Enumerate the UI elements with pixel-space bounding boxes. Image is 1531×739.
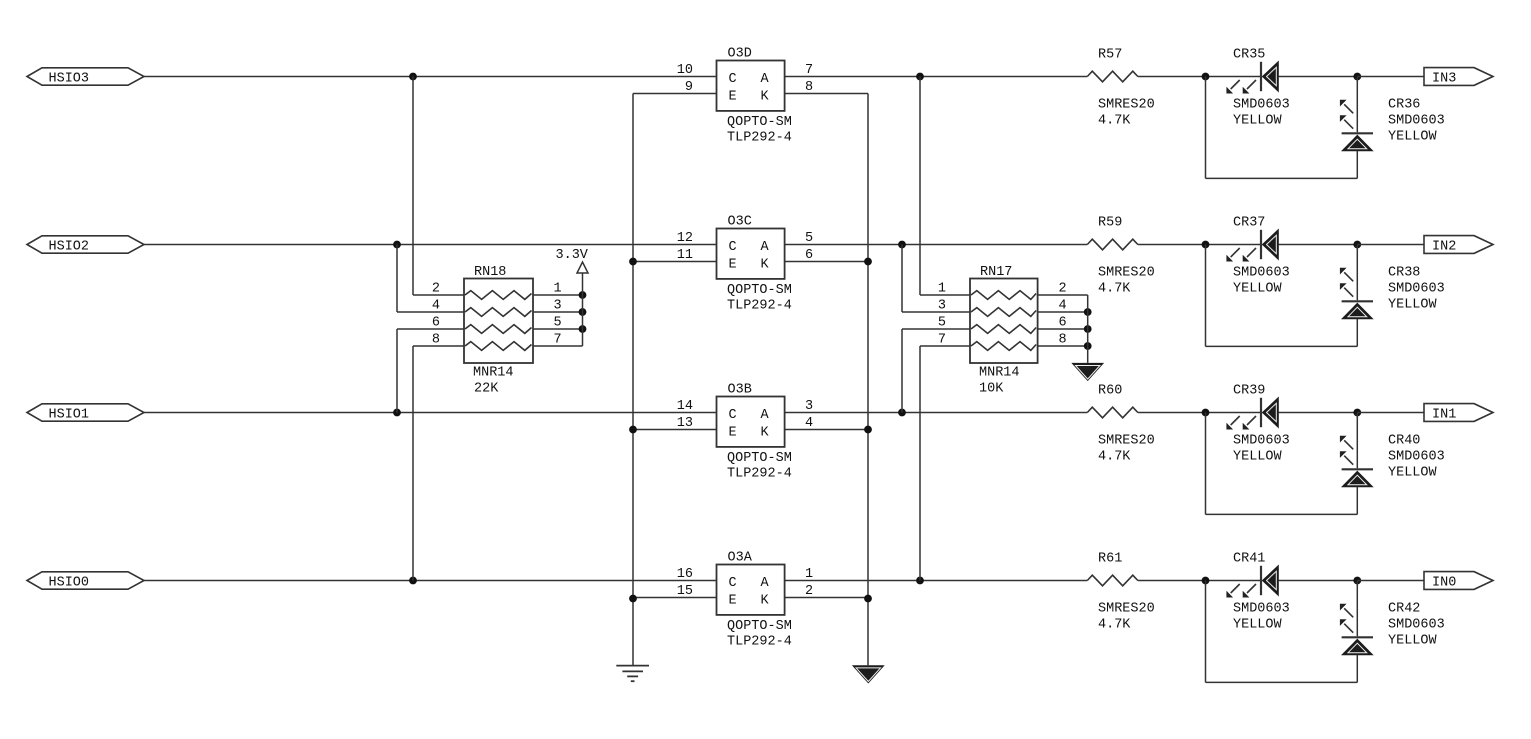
wire	[633, 261, 717, 263]
wire	[1205, 581, 1207, 683]
wire	[1356, 655, 1358, 683]
svg-text:QOPTO-SM: QOPTO-SM	[727, 283, 792, 298]
svg-text:4.7K: 4.7K	[1098, 618, 1131, 633]
wire	[919, 77, 921, 296]
svg-text:K: K	[761, 90, 770, 105]
wire	[144, 412, 717, 414]
svg-text:A: A	[761, 408, 770, 423]
junction	[1202, 577, 1210, 585]
wire	[633, 93, 717, 95]
wire	[1138, 412, 1260, 414]
ground AGND bottom	[852, 665, 885, 683]
svg-text:CR39: CR39	[1233, 384, 1265, 399]
junction on HSIO1 net	[393, 409, 401, 417]
wire	[397, 311, 464, 313]
svg-text:A: A	[761, 576, 770, 591]
svg-text:O3B: O3B	[728, 382, 752, 397]
svg-text:E: E	[729, 258, 737, 273]
wire	[144, 244, 717, 246]
node IN2 output flag	[1424, 236, 1493, 254]
resistor R61	[1087, 575, 1138, 586]
svg-text:SMD0603: SMD0603	[1233, 602, 1290, 617]
svg-text:R57: R57	[1098, 48, 1122, 63]
wire	[582, 273, 584, 346]
svg-text:12: 12	[677, 231, 693, 246]
node HSIO1 input flag	[27, 404, 144, 421]
junction	[1353, 409, 1361, 417]
svg-text:R61: R61	[1098, 552, 1122, 567]
svg-text:K: K	[761, 426, 770, 441]
wire	[412, 346, 414, 581]
wire	[1206, 345, 1358, 347]
wire	[1278, 580, 1357, 582]
svg-text:MNR14: MNR14	[473, 366, 514, 381]
junction at x=902	[898, 241, 906, 249]
wire	[1356, 319, 1358, 347]
svg-text:YELLOW: YELLOW	[1233, 114, 1283, 129]
junction	[1353, 577, 1361, 585]
wire	[785, 93, 868, 95]
svg-text:R59: R59	[1098, 216, 1122, 231]
wire	[1206, 513, 1358, 515]
wire	[901, 329, 903, 413]
svg-text:4.7K: 4.7K	[1098, 282, 1131, 297]
svg-text:YELLOW: YELLOW	[1233, 618, 1283, 633]
wire	[633, 597, 717, 599]
wire	[396, 329, 398, 413]
wire	[1138, 580, 1260, 582]
svg-text:4.7K: 4.7K	[1098, 114, 1131, 129]
svg-text:E: E	[729, 426, 737, 441]
svg-text:C: C	[729, 240, 737, 255]
svg-text:CR35: CR35	[1233, 48, 1265, 63]
svg-text:CR37: CR37	[1233, 216, 1265, 231]
wire	[413, 294, 464, 296]
wire	[920, 345, 970, 347]
svg-text:QOPTO-SM: QOPTO-SM	[727, 451, 792, 466]
LED CR39	[1260, 398, 1262, 427]
LED CR36	[1356, 77, 1358, 133]
svg-text:IN0: IN0	[1432, 575, 1456, 590]
opto-coupler O3D	[717, 61, 785, 111]
svg-text:YELLOW: YELLOW	[1388, 130, 1438, 145]
svg-text:O3D: O3D	[728, 46, 752, 61]
wire	[1357, 76, 1424, 78]
svg-text:QOPTO-SM: QOPTO-SM	[727, 619, 792, 634]
svg-text:TLP292-4: TLP292-4	[727, 131, 792, 146]
wire	[1278, 76, 1357, 78]
svg-text:16: 16	[677, 567, 693, 582]
wire	[902, 328, 970, 330]
node HSIO3 input flag	[27, 68, 144, 85]
wire	[785, 261, 868, 263]
wire	[785, 597, 868, 599]
junction at x=920	[916, 577, 924, 585]
resistor R57	[1087, 71, 1138, 82]
junction on HSIO3 net	[409, 73, 417, 81]
power 3.3V	[577, 262, 588, 273]
wire	[1206, 177, 1358, 179]
junction	[1202, 73, 1210, 81]
wire	[920, 294, 970, 296]
svg-text:HSIO2: HSIO2	[49, 239, 90, 254]
resistor R59	[1087, 239, 1138, 250]
node IN3 output flag	[1424, 68, 1493, 86]
LED CR42	[1356, 581, 1358, 637]
LED CR38	[1356, 245, 1358, 301]
svg-text:SMD0603: SMD0603	[1388, 114, 1445, 129]
wire	[1356, 487, 1358, 515]
junction	[1353, 241, 1361, 249]
wire	[144, 580, 717, 582]
svg-text:YELLOW: YELLOW	[1388, 298, 1438, 313]
wire	[1357, 244, 1424, 246]
wire	[1138, 244, 1260, 246]
svg-text:K: K	[761, 594, 770, 609]
junction	[579, 325, 587, 333]
junction	[1084, 308, 1092, 316]
svg-text:SMRES20: SMRES20	[1098, 602, 1155, 617]
svg-text:CR41: CR41	[1233, 552, 1265, 567]
wire	[533, 328, 583, 330]
svg-text:CR36: CR36	[1388, 98, 1420, 113]
svg-text:10: 10	[677, 63, 693, 78]
svg-text:RN17: RN17	[980, 265, 1012, 280]
svg-text:MNR14: MNR14	[979, 366, 1020, 381]
junction	[864, 258, 872, 266]
wire	[1278, 412, 1357, 414]
wire	[1205, 245, 1207, 347]
opto-coupler O3A	[717, 565, 785, 615]
junction	[864, 595, 872, 603]
junction on HSIO0 net	[409, 577, 417, 585]
wire	[901, 245, 903, 313]
wire	[785, 244, 1088, 246]
svg-text:O3A: O3A	[728, 550, 753, 565]
svg-text:A: A	[761, 240, 770, 255]
wire	[144, 76, 717, 78]
svg-text:CR42: CR42	[1388, 602, 1420, 617]
wire	[1038, 311, 1088, 313]
wire	[1357, 580, 1424, 582]
junction at x=920	[916, 73, 924, 81]
wire	[785, 412, 1088, 414]
wire	[1138, 76, 1260, 78]
svg-text:TLP292-4: TLP292-4	[727, 635, 792, 650]
svg-text:A: A	[761, 72, 770, 87]
LED CR37	[1260, 230, 1262, 259]
svg-text:C: C	[729, 72, 737, 87]
opto-coupler O3C	[717, 229, 785, 279]
svg-text:K: K	[761, 258, 770, 273]
svg-text:E: E	[729, 90, 737, 105]
wire	[1038, 345, 1088, 347]
svg-text:SMD0603: SMD0603	[1388, 282, 1445, 297]
svg-text:YELLOW: YELLOW	[1388, 634, 1438, 649]
wire	[396, 245, 398, 313]
ground GND	[616, 665, 649, 667]
LED CR40	[1356, 413, 1358, 469]
wire	[902, 311, 970, 313]
ground AGND near RN17	[1071, 363, 1104, 381]
svg-text:C: C	[729, 408, 737, 423]
wire	[412, 77, 414, 296]
wire	[1087, 295, 1089, 363]
junction	[1084, 325, 1092, 333]
svg-text:YELLOW: YELLOW	[1233, 450, 1283, 465]
svg-text:QOPTO-SM: QOPTO-SM	[727, 115, 792, 130]
wire	[397, 328, 464, 330]
junction	[579, 291, 587, 299]
wire	[785, 580, 1088, 582]
node HSIO0 input flag	[27, 572, 144, 589]
wire	[867, 94, 869, 666]
wire	[785, 76, 1088, 78]
junction	[1202, 241, 1210, 249]
svg-text:O3C: O3C	[728, 214, 752, 229]
wire	[785, 429, 868, 431]
wire	[633, 429, 717, 431]
svg-text:R60: R60	[1098, 384, 1122, 399]
svg-text:4.7K: 4.7K	[1098, 450, 1131, 465]
junction	[1353, 73, 1361, 81]
junction	[629, 258, 637, 266]
resistor R60	[1087, 407, 1138, 418]
wire	[533, 345, 583, 347]
wire	[1205, 413, 1207, 515]
LED CR35	[1260, 62, 1262, 91]
svg-text:IN2: IN2	[1432, 239, 1456, 254]
svg-text:HSIO1: HSIO1	[49, 407, 90, 422]
wire	[1206, 681, 1358, 683]
wire	[413, 345, 464, 347]
svg-text:YELLOW: YELLOW	[1388, 466, 1438, 481]
wire	[1357, 412, 1424, 414]
wire	[533, 294, 583, 296]
svg-text:SMD0603: SMD0603	[1233, 266, 1290, 281]
svg-text:TLP292-4: TLP292-4	[727, 299, 792, 314]
wire	[1278, 244, 1357, 246]
svg-text:RN18: RN18	[474, 265, 506, 280]
node HSIO2 input flag	[27, 236, 144, 253]
svg-text:TLP292-4: TLP292-4	[727, 467, 792, 482]
svg-text:HSIO3: HSIO3	[49, 71, 90, 86]
junction at x=902	[898, 409, 906, 417]
svg-text:IN3: IN3	[1432, 71, 1456, 86]
svg-text:SMRES20: SMRES20	[1098, 98, 1155, 113]
opto-coupler O3B	[717, 397, 785, 447]
svg-text:SMD0603: SMD0603	[1388, 618, 1445, 633]
junction	[864, 426, 872, 434]
wire	[1356, 151, 1358, 179]
junction on HSIO2 net	[393, 241, 401, 249]
svg-text:CR38: CR38	[1388, 266, 1420, 281]
svg-text:E: E	[729, 594, 737, 609]
wire	[533, 311, 583, 313]
svg-text:SMRES20: SMRES20	[1098, 434, 1155, 449]
svg-text:3.3V: 3.3V	[556, 248, 589, 263]
svg-text:SMRES20: SMRES20	[1098, 266, 1155, 281]
svg-text:SMD0603: SMD0603	[1233, 434, 1290, 449]
svg-text:14: 14	[677, 399, 693, 414]
svg-text:CR40: CR40	[1388, 434, 1420, 449]
svg-text:C: C	[729, 576, 737, 591]
svg-text:10K: 10K	[979, 382, 1004, 397]
node IN0 output flag	[1424, 572, 1493, 590]
junction	[629, 595, 637, 603]
wire	[1205, 77, 1207, 179]
wire	[632, 94, 634, 666]
wire	[1038, 294, 1088, 296]
resistor network RN17	[970, 279, 1038, 364]
svg-text:YELLOW: YELLOW	[1233, 282, 1283, 297]
junction	[1202, 409, 1210, 417]
LED CR41	[1260, 566, 1262, 595]
resistor network RN18	[464, 279, 533, 364]
junction	[629, 426, 637, 434]
svg-text:SMD0603: SMD0603	[1388, 450, 1445, 465]
svg-text:HSIO0: HSIO0	[49, 575, 90, 590]
junction	[1084, 342, 1092, 350]
wire	[1038, 328, 1088, 330]
svg-text:22K: 22K	[474, 382, 499, 397]
wire	[919, 346, 921, 581]
svg-text:IN1: IN1	[1432, 407, 1456, 422]
svg-text:SMD0603: SMD0603	[1233, 98, 1290, 113]
junction	[579, 308, 587, 316]
node IN1 output flag	[1424, 404, 1493, 422]
